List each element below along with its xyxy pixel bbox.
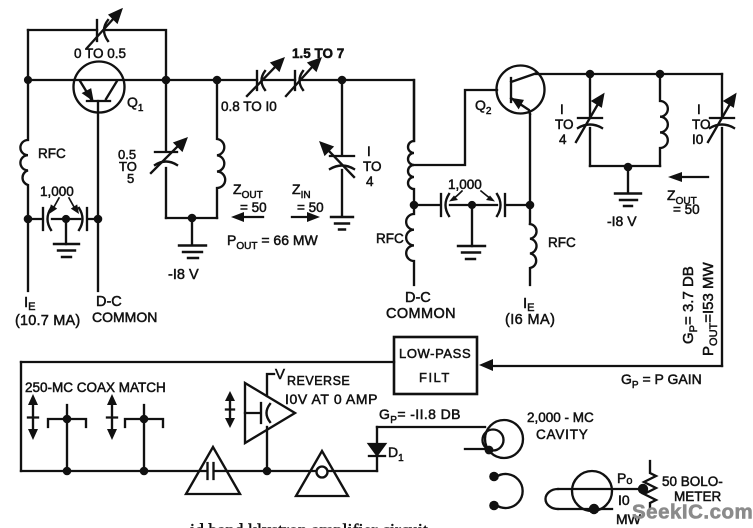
svg-text:FILT: FILT [419,370,451,385]
svg-text:1,000: 1,000 [448,177,482,192]
node dot A3 [213,76,222,85]
wire coil tap to Q2 base [413,90,497,165]
svg-text:I: I [697,102,701,117]
label 1 TO 4 (input) [363,144,382,189]
svg-text:1,000: 1,000 [40,184,74,199]
transistor Q1 [74,62,125,113]
probe triangle VREVERSE [245,383,295,443]
node dot D2 [656,70,665,79]
svg-text:= 50: = 50 [297,200,324,215]
wire Q2 emitter lead [529,114,531,224]
wire coax line top rail [21,361,394,363]
label ZOUT = 50 with arrow (Q1 output) [231,181,267,222]
svg-text:= 50: = 50 [673,202,700,217]
tuning arrow 3 [225,391,235,428]
label V REVERSE 10V AT O AMP [275,366,378,407]
label ZIN = 50 with arrow [292,181,324,222]
svg-text:GP= 3.7 DB: GP= 3.7 DB [680,266,700,344]
node dot A2 [162,76,171,85]
svg-text:4: 4 [366,174,374,189]
node dot E1 [263,467,272,476]
wire output down to filter with arrow [479,359,722,371]
svg-text:TO: TO [363,159,382,174]
svg-text:Po: Po [617,470,632,487]
stub tuner 2 [125,405,163,475]
wire probe top lead [267,374,274,396]
svg-text:POUT = 66 MW: POUT = 66 MW [227,232,319,252]
svg-text:(10.7 MA): (10.7 MA) [15,313,80,329]
svg-text:V: V [275,366,285,383]
stub tuner 1 [48,405,86,475]
label IE (10.7 MA) [15,294,80,329]
svg-text:COMMON: COMMON [92,309,157,325]
capacitor 0.8 TO 10 [247,59,283,96]
svg-text:-I8 V: -I8 V [607,213,637,229]
ground under 1,000 (left) [54,219,79,257]
svg-text:IE: IE [24,294,36,313]
inductor RFC (right, x530) [530,224,537,285]
svg-text:1.5 TO 7: 1.5 TO 7 [292,46,344,61]
tuning arrow 1 [28,394,38,440]
svg-text:(I6 MA): (I6 MA) [505,312,555,328]
wire coax left vertical [20,362,22,471]
inductor tapped coil (x414) [408,80,414,205]
capacitor 0.5 TO 5 (tank left branch) [151,80,186,218]
svg-text:ZOUT: ZOUT [233,181,263,201]
svg-text:I: I [560,102,564,117]
label 0.5 TO 5 [118,147,137,186]
wire output tank bottom bar [590,165,660,167]
svg-text:4: 4 [559,132,567,147]
svg-text:I: I [367,144,371,159]
wire top feedback loop [28,30,166,80]
capacitor 1.5 TO 7 [286,59,320,96]
svg-text:GP= -II.8 DB: GP= -II.8 DB [379,406,461,426]
node dot B1 [24,215,33,224]
node dot A4 [338,76,347,85]
label 2,000-MC CAVITY [527,410,594,442]
label 1,000 (left) with arrows [40,184,79,214]
svg-text:D-C: D-C [96,294,122,310]
svg-text:id band klystron amplifier cir: id band klystron amplifier circuit [190,520,428,528]
wire Q2 collector line [536,73,722,75]
transistor Q2 [497,66,545,115]
inductor RFC (center, x414) [406,205,414,285]
node dot B2 [62,215,70,223]
label 1 TO 10 [692,102,711,147]
inductor tank (x217) [217,80,225,218]
ground -18V (output tank) [615,167,641,206]
ground -18V (left tank) [179,218,206,258]
probe triangle with circle [296,451,348,496]
wire main base line Q1 stage [28,80,414,141]
capacitor feedthrough center pair 1,000 [413,194,530,216]
label 10 MW [616,492,642,527]
capacitor 1 TO 4 (output tank) [576,74,603,166]
svg-text:250-MC COAX MATCH: 250-MC COAX MATCH [25,380,166,395]
label D-C COMMON (center) [386,290,456,322]
svg-text:TO: TO [555,117,574,132]
node dot C2 [468,201,476,209]
svg-text:COMMON: COMMON [386,306,456,322]
label 1 TO 4 (output tank) [555,102,574,147]
node dot D3 [624,163,633,172]
svg-text:CAVITY: CAVITY [536,427,589,442]
probe triangle with capacitor [186,447,240,494]
svg-text:D1: D1 [388,444,404,464]
capacitor 1 TO 4 (Q2 input) [321,80,354,216]
node dot C1 [410,201,419,210]
svg-text:-I8 V: -I8 V [168,267,199,283]
low-pass filter box [394,337,477,394]
node dot D1 [586,70,595,79]
cavity output loop [489,472,522,511]
capacitor 1 TO 10 [708,74,735,366]
capacitor feedthrough left pair 1,000 [28,208,98,230]
svg-text:ZIN: ZIN [292,181,311,201]
svg-text:LOW-PASS: LOW-PASS [399,346,471,361]
ground under 1,000 (center) [458,205,485,259]
ground under 1 TO 4 [331,217,353,230]
label IE (16 MA) [505,295,555,328]
tuning arrow 2 [107,394,117,440]
capacitor 0 TO 0.5 [87,10,121,48]
bolometer coupling loop [546,471,649,514]
svg-text:GP = P GAIN: GP = P GAIN [621,371,702,391]
wire left vertical rail with RFC coil [20,30,28,291]
svg-text:Q2: Q2 [475,97,492,117]
svg-text:RFC: RFC [376,231,404,246]
diode D1 [369,427,385,471]
label ZOUT = 50 with arrow (output) [667,172,708,217]
svg-text:5: 5 [127,171,134,186]
inductor output tank (x660) [660,74,668,166]
svg-text:50 BOLO-: 50 BOLO- [662,474,723,489]
label 1,000 (center) with arrows [448,177,495,202]
svg-text:Q1: Q1 [127,94,144,114]
svg-text:REVERSE: REVERSE [287,374,350,388]
svg-text:RFC: RFC [548,235,576,250]
label D-C COMMON (left) [92,294,157,325]
node dot C3 [526,201,535,210]
node dot A1 [24,76,32,84]
svg-text:I0: I0 [692,132,703,147]
svg-text:I0: I0 [618,492,630,508]
node dot B3 [94,215,103,224]
wire Q1 base lead D-C common [97,101,99,291]
node dot tank [188,214,197,223]
wire coax bottom rail [21,470,377,472]
svg-text:POUT=I53 MW: POUT=I53 MW [700,261,720,356]
svg-text:TO: TO [692,117,711,132]
wire tank bottom bar [166,217,217,219]
resistor 50 bolometer [644,461,656,507]
svg-text:0.8 TO I0: 0.8 TO I0 [221,99,277,114]
svg-text:D-C: D-C [405,290,431,306]
svg-text:I0V AT 0 AMP: I0V AT 0 AMP [285,391,378,407]
wire diode to cavity [377,426,485,428]
svg-text:RFC: RFC [38,146,66,161]
label 50 BOLO-METER [662,474,723,504]
wire probe bottom lead [266,427,268,471]
svg-text:2,000 - MC: 2,000 - MC [527,410,594,425]
cavity coupling loop [465,420,523,458]
svg-text:0 TO 0.5: 0 TO 0.5 [74,46,126,61]
svg-text:SeekIC.com: SeekIC.com [632,501,753,524]
